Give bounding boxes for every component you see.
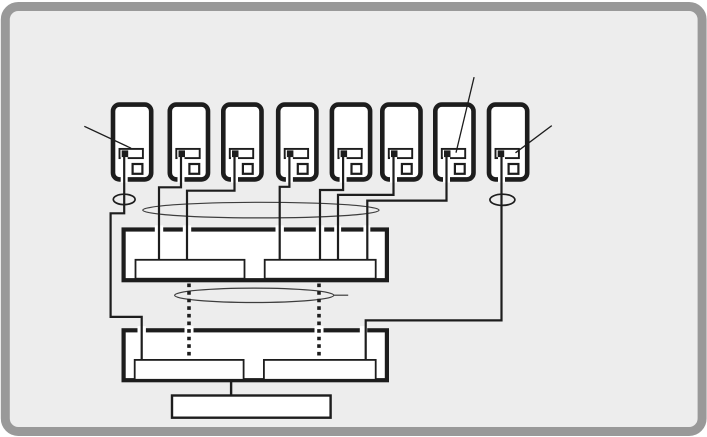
callout line node8	[516, 126, 552, 153]
upper switch left card	[136, 260, 245, 279]
lower switch box	[124, 330, 387, 380]
bus ellipse middle	[175, 288, 334, 302]
lower switch left card	[135, 360, 244, 380]
bottom unit box	[172, 396, 331, 418]
node 8	[489, 105, 527, 180]
wire node1 to lower left card	[111, 153, 146, 360]
node 5	[332, 105, 370, 180]
wire node3 to upper left card	[183, 153, 238, 260]
node 6	[382, 105, 420, 180]
wire node6 to upper right card	[334, 153, 397, 260]
middle ellipse tail line	[334, 294, 348, 296]
dotted link left	[185, 284, 194, 360]
wire node7 to upper right card	[363, 153, 450, 260]
stub lower box to bottom unit	[230, 379, 232, 395]
callout line node7	[456, 77, 474, 153]
small ellipse left	[113, 194, 135, 204]
node 2	[170, 105, 208, 180]
dotted link right	[315, 284, 324, 360]
wire node5 to upper right card	[316, 153, 347, 260]
node 4	[278, 105, 316, 180]
upper switch right card	[265, 260, 376, 279]
lower switch right card	[264, 360, 376, 380]
small ellipse right	[490, 194, 515, 205]
node 3	[223, 105, 261, 180]
wire node2 to upper left card	[155, 153, 185, 260]
upper switch box	[124, 230, 387, 281]
node 7	[435, 105, 473, 180]
wire node4 to upper right card	[276, 153, 293, 260]
callout line node1	[84, 126, 131, 148]
bus ellipse upper	[143, 202, 379, 218]
wire node8 to lower right card	[360, 153, 505, 360]
node 1	[113, 105, 151, 180]
